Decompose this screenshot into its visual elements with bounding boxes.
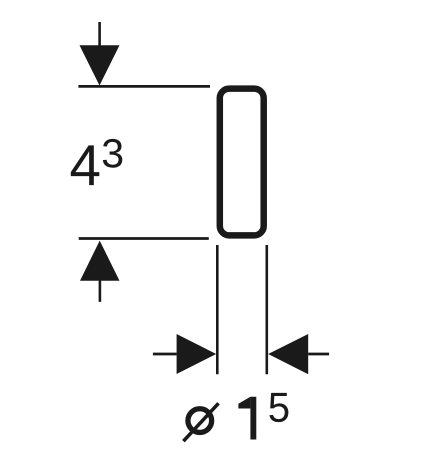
top dimension line <box>78 85 210 88</box>
dimension label diameter sign ring <box>188 409 212 433</box>
dimension label 43 superscript digit 3 <box>103 139 122 168</box>
dimension arrow top (pointing down) head <box>80 45 120 85</box>
bottom dimension line <box>79 237 209 240</box>
dimension label 15 digit 1 stem <box>250 397 256 440</box>
dimension label 15 superscript digit 5 <box>269 393 288 422</box>
left extension line <box>216 245 219 374</box>
dimension arrow bottom (pointing up) head <box>80 241 120 281</box>
dimension label 43 digit 4 <box>71 145 100 185</box>
dimension arrow left (pointing right) head <box>177 334 217 374</box>
dimension arrow left (pointing right) tail <box>153 353 177 356</box>
dimension arrow bottom (pointing up) tail <box>99 280 102 302</box>
dimension arrow top (pointing down) tail <box>98 22 101 50</box>
dimension label diameter sign slash <box>183 403 218 441</box>
dimension label 15 digit 1 flag <box>238 397 250 409</box>
dimension arrow right (pointing left) tail <box>308 353 329 356</box>
pill outline (rounded rectangle) <box>220 89 264 236</box>
right extension line <box>265 245 268 374</box>
dimension arrow right (pointing left) head <box>268 334 308 374</box>
